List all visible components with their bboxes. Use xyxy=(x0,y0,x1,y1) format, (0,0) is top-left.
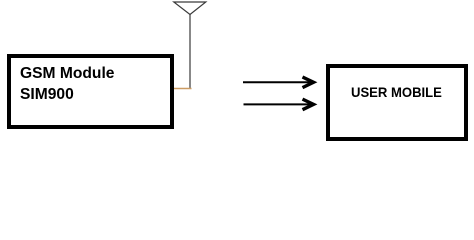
antenna triangle xyxy=(174,2,206,15)
wire: antenna vertical feed line xyxy=(189,15,191,89)
block: USER MOBILE xyxy=(326,64,468,142)
wire: antenna feed line + triangle + tan connector + arrows (SVG layer) xyxy=(0,0,474,146)
arrow 1 (GSM module to user mobile, upper) xyxy=(243,77,314,88)
arrow 2 (GSM module to user mobile, lower) xyxy=(244,99,314,110)
wire: tan connector from GSM box to antenna line xyxy=(174,88,192,90)
label: GSM Module / SIM900 xyxy=(20,63,114,105)
block: GSM Module SIM900 xyxy=(7,54,174,129)
label: USER MOBILE xyxy=(351,86,442,99)
